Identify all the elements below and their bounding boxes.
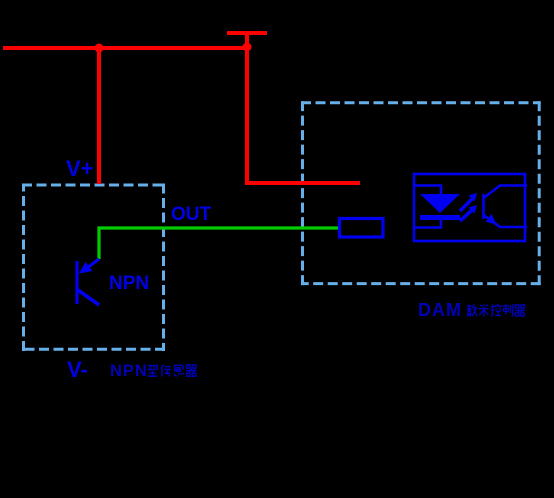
controller enclosure box (301, 101, 541, 285)
svg-text:V+: V+ (66, 156, 94, 181)
junction (243, 43, 252, 52)
light arrow (460, 193, 477, 211)
LED cathode lead (414, 220, 441, 228)
power rail V+ (3, 46, 247, 50)
optocoupler U1 (414, 174, 527, 241)
svg-text:OUT: OUT (171, 204, 212, 225)
LED cathode bar (420, 215, 460, 220)
phototransistor emitter (484, 215, 528, 227)
light arrow (460, 205, 477, 221)
phototransistor collector (484, 186, 528, 199)
svg-text:V-: V- (67, 357, 88, 382)
LED D1 (420, 194, 460, 213)
svg-text:DAM: DAM (418, 300, 462, 320)
power supply terminal (227, 31, 267, 35)
wire (97, 48, 101, 184)
svg-text:NPN: NPN (110, 362, 148, 380)
phototransistor base (482, 194, 485, 219)
LED anode lead (414, 186, 441, 196)
svg-text:NPN: NPN (109, 273, 149, 294)
wire (245, 33, 249, 183)
junction (95, 44, 104, 53)
wire OUT (green) (99, 228, 338, 259)
optocoupler body (414, 174, 525, 241)
wire (245, 181, 360, 185)
sensor enclosure box (22, 184, 165, 352)
emitter arrow (486, 214, 497, 225)
resistor R1 (340, 219, 384, 238)
transistor Q1 NPN (77, 259, 99, 305)
